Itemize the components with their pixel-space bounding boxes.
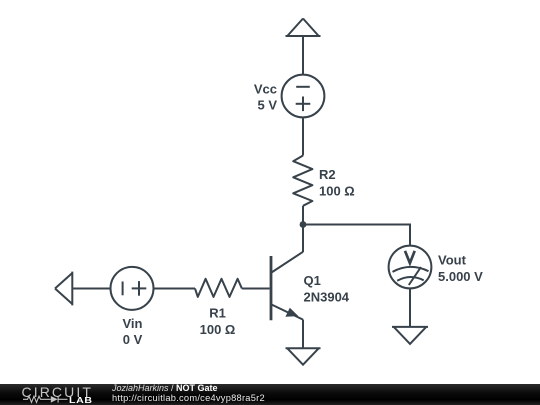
wire flag to Vin [72,288,110,290]
svg-text:Vcc: Vcc [254,82,277,97]
transistor Q1 2N3904 [271,252,303,348]
resistor R2 [293,156,312,206]
label Vcc 5 V [254,82,277,113]
ground under voltmeter [392,327,428,344]
svg-text:Vin: Vin [123,316,143,331]
wire R1 to base [242,288,270,290]
voltage source V2 Vcc [282,75,325,118]
wire Vcc to R2 [302,117,304,155]
svg-text:Q1: Q1 [304,273,321,288]
svg-text:5 V: 5 V [257,98,277,113]
svg-text:R2: R2 [319,167,336,182]
svg-text:100 Ω: 100 Ω [319,184,355,199]
footer bar [0,384,540,405]
wire flag to Vcc source [302,36,304,75]
attribution text [112,384,265,403]
svg-text:R1: R1 [209,306,226,321]
wire voltmeter to ground [409,288,411,327]
svg-text:5.000 V: 5.000 V [438,269,483,284]
CircuitLab logo text [22,385,93,399]
wire R2 to collector node [302,206,304,252]
voltage source V1 Vin [111,267,154,310]
ground under emitter [286,348,321,364]
label Q1 2N3904 [304,273,350,305]
Vcc power flag [286,19,321,37]
input flag [55,272,72,306]
svg-text:0 V: 0 V [123,332,143,347]
label V inside meter [405,251,415,263]
label Vin 0 V [123,316,143,347]
svg-text:100 Ω: 100 Ω [200,322,236,337]
svg-text:2N3904: 2N3904 [304,290,350,305]
node junction dot [300,221,307,228]
svg-text:Vout: Vout [438,253,467,268]
wire Vin to R1 [154,288,196,290]
label R2 100 Ohm [319,167,355,199]
resistor R1 [195,279,242,297]
label R1 100 Ohm [200,306,236,338]
label Vout 5.000 V [438,253,483,285]
voltmeter Vout [389,246,432,289]
wire node to voltmeter [303,225,410,246]
CircuitLab logo squiggle: resistor + diode [23,395,69,404]
